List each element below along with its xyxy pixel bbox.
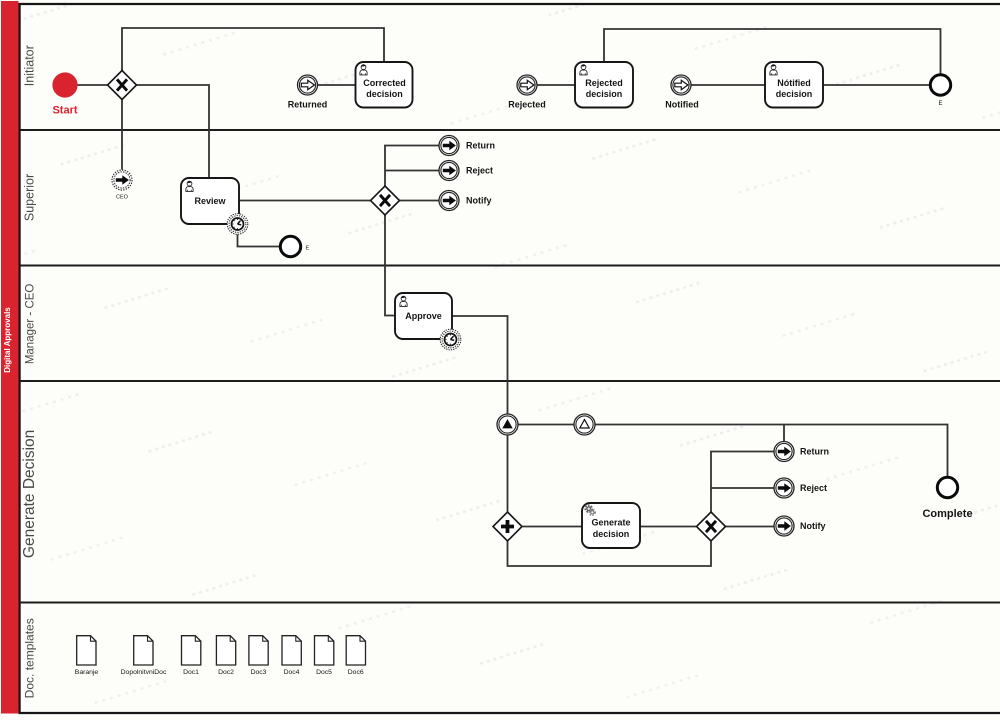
wire G5 top to Return event 2 xyxy=(711,452,774,513)
svg-text:Notify: Notify xyxy=(800,521,826,531)
intermediate event Notify 2 xyxy=(774,516,794,536)
wire Approve task to signal throw event xyxy=(453,316,508,414)
svg-text:Doc6: Doc6 xyxy=(348,669,364,676)
intermediate event Returned xyxy=(298,75,318,95)
task Review xyxy=(181,178,239,224)
task Corrected decision xyxy=(356,62,413,108)
document Doc5 xyxy=(315,636,334,665)
wire G2 right to Notify event xyxy=(400,200,440,202)
end event Complete xyxy=(937,477,957,497)
end event E superior xyxy=(280,236,300,256)
signal throw event xyxy=(497,414,518,435)
svg-text:Manager - CEO: Manager - CEO xyxy=(25,284,37,365)
svg-text:Review: Review xyxy=(194,196,226,206)
lane line Manager/Generate xyxy=(20,380,1000,382)
svg-text:Notify: Notify xyxy=(466,196,492,206)
wire G1 right to Review task xyxy=(137,85,210,178)
wire branch to Reject event 2 xyxy=(711,487,774,489)
wire Rejected decision task top to end event E xyxy=(604,29,941,75)
intermediate event Reject 2 xyxy=(774,478,794,498)
svg-text:Return: Return xyxy=(466,141,495,151)
wire G4 right to Generate decision task xyxy=(523,526,583,528)
document Doc1 xyxy=(182,636,201,665)
task Approve xyxy=(395,293,452,339)
svg-text:decision: decision xyxy=(593,529,630,539)
svg-text:Start: Start xyxy=(52,105,77,117)
start event Start xyxy=(52,72,77,97)
svg-text:Corrected: Corrected xyxy=(363,78,406,88)
task Generate decision xyxy=(582,503,640,548)
svg-text:Baranje: Baranje xyxy=(75,669,99,676)
lane line Superior/Manager xyxy=(20,265,1000,267)
wire signal catch to Complete event xyxy=(596,425,948,477)
wire branch to Reject event xyxy=(385,170,439,172)
wire signal throw to signal catch xyxy=(518,424,574,426)
wire branch down to Return event 2 xyxy=(783,425,785,442)
intermediate event Rejected xyxy=(517,75,537,95)
wire Generate decision task to gateway G5 xyxy=(641,526,697,528)
wire G2 bottom to Approve task xyxy=(385,215,395,316)
document Doc4 xyxy=(282,636,301,665)
intermediate event Return xyxy=(439,136,459,156)
task Notified decision xyxy=(765,62,823,108)
wire Rejected event to Rejected decision task xyxy=(537,84,575,86)
svg-text:Doc5: Doc5 xyxy=(316,669,332,676)
svg-text:Initiator: Initiator xyxy=(23,45,37,86)
svg-text:Doc3: Doc3 xyxy=(251,669,267,676)
pool header red bar xyxy=(1,1,19,714)
svg-text:Reject: Reject xyxy=(466,166,493,176)
wire Start to gateway G1 xyxy=(78,84,108,86)
svg-text:Complete: Complete xyxy=(922,508,972,520)
signal catch event xyxy=(574,414,595,435)
svg-text:Superior: Superior xyxy=(23,174,37,221)
boundary timer on Review xyxy=(227,214,248,235)
pool border left xyxy=(19,3,21,714)
gateway G1 exclusive xyxy=(108,71,137,100)
lane line Generate/Doc templates xyxy=(20,602,1000,604)
wire G5 right to Notify event 2 xyxy=(726,526,775,528)
document Doc2 xyxy=(216,636,235,665)
intermediate event Return 2 xyxy=(774,442,794,462)
svg-text:Generate Decision: Generate Decision xyxy=(21,430,38,558)
svg-text:Doc2: Doc2 xyxy=(218,669,234,676)
wire Notified event to Notified decision task xyxy=(691,84,765,86)
svg-text:Returned: Returned xyxy=(288,100,328,110)
svg-text:Digital Approvals: Digital Approvals xyxy=(3,307,12,373)
wire signal throw bottom to gateway G4 xyxy=(507,436,509,512)
svg-text:E: E xyxy=(306,246,310,252)
pool border bottom xyxy=(19,712,1000,714)
svg-text:decision: decision xyxy=(776,89,813,99)
wire Notified decision task to end event E xyxy=(823,84,931,86)
svg-text:Doc. templates: Doc. templates xyxy=(23,618,37,698)
svg-text:Notified: Notified xyxy=(665,100,699,110)
end event E initiator xyxy=(930,75,950,95)
gateway G2 exclusive xyxy=(371,186,400,215)
svg-text:Generate: Generate xyxy=(591,518,630,528)
svg-text:decision: decision xyxy=(366,89,403,99)
svg-text:E: E xyxy=(938,101,942,107)
wire Review timer to end event E2 xyxy=(238,235,281,247)
intermediate event CEO xyxy=(112,170,132,190)
boundary timer on Approve xyxy=(440,329,461,350)
lane line Initiator/Superior xyxy=(20,129,1000,131)
document DopolnitvniDoc xyxy=(134,636,153,665)
svg-text:Doc1: Doc1 xyxy=(183,669,199,676)
wire loop G4 bottom to G5 bottom xyxy=(508,542,712,567)
svg-text:Doc4: Doc4 xyxy=(284,669,300,676)
intermediate event Notified xyxy=(671,75,691,95)
wire Returned event to Corrected decision task xyxy=(318,84,356,86)
pool border top xyxy=(19,3,1000,5)
svg-text:Return: Return xyxy=(800,447,829,457)
document Doc3 xyxy=(249,636,268,665)
svg-text:Reject: Reject xyxy=(800,483,827,493)
wire G1 bottom to CEO event xyxy=(121,100,123,170)
document Baranje xyxy=(77,636,96,665)
gateway G4 parallel xyxy=(493,512,522,541)
svg-text:Approve: Approve xyxy=(405,311,442,321)
svg-text:CEO: CEO xyxy=(116,195,129,201)
task Rejected decision xyxy=(575,62,633,108)
svg-text:DopolnitvniDoc: DopolnitvniDoc xyxy=(121,669,167,676)
svg-text:decision: decision xyxy=(586,89,623,99)
gateway G5 exclusive xyxy=(697,512,726,541)
document Doc6 xyxy=(346,636,365,665)
svg-text:Rejected: Rejected xyxy=(508,100,546,110)
intermediate event Notify xyxy=(439,191,459,211)
svg-text:Nótified: Nótified xyxy=(777,78,811,88)
wire G1 top to Corrected decision task xyxy=(122,28,384,71)
svg-text:Rejected: Rejected xyxy=(585,78,623,88)
wire Review task to gateway G2 xyxy=(240,200,371,202)
intermediate event Reject xyxy=(439,161,459,181)
wire G2 top to Return event xyxy=(385,146,439,187)
